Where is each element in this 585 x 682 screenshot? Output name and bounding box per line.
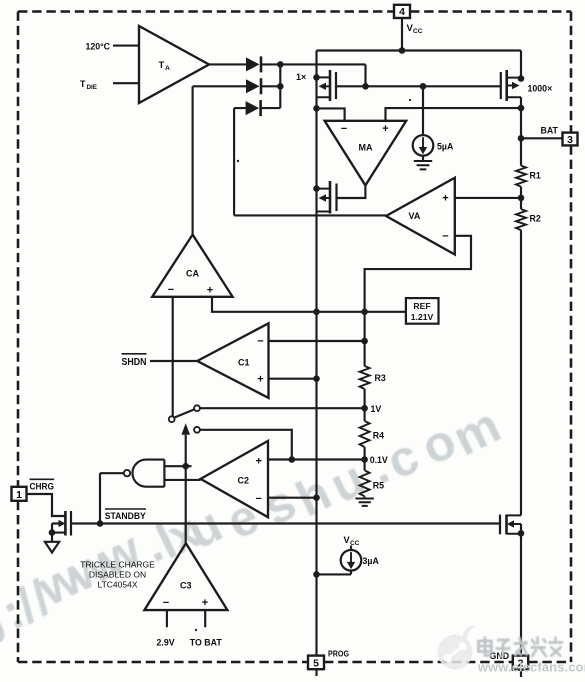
svg-text:2.9V: 2.9V — [157, 637, 175, 647]
svg-text:STANDBY: STANDBY — [105, 511, 146, 521]
svg-text:PROG: PROG — [328, 649, 349, 659]
svg-text:1.21V: 1.21V — [411, 312, 434, 322]
svg-text:−: − — [442, 231, 448, 243]
svg-text:1: 1 — [16, 489, 22, 501]
svg-text:TO BAT: TO BAT — [190, 637, 223, 647]
svg-text:−: − — [257, 336, 263, 348]
svg-text:−: − — [163, 597, 169, 609]
svg-text:R2: R2 — [530, 214, 541, 224]
svg-text:1V: 1V — [371, 404, 382, 414]
svg-text:5µA: 5µA — [437, 142, 454, 152]
svg-text:R5: R5 — [373, 481, 384, 491]
svg-text:+: + — [255, 456, 261, 468]
svg-text:−: − — [168, 284, 174, 296]
svg-text:TRICKLE CHARGE: TRICKLE CHARGE — [80, 560, 155, 570]
svg-text:CC: CC — [413, 28, 423, 35]
svg-text:−: − — [255, 493, 261, 505]
svg-text:www.elecfans.com: www.elecfans.com — [477, 660, 585, 675]
svg-text:CA: CA — [186, 269, 199, 279]
svg-text:+: + — [442, 193, 448, 205]
svg-text:R1: R1 — [530, 171, 541, 181]
svg-text:A: A — [165, 65, 170, 72]
svg-text:120°C: 120°C — [85, 42, 110, 52]
svg-text:CC: CC — [350, 540, 360, 547]
svg-text:DISABLED ON: DISABLED ON — [89, 570, 146, 580]
svg-text:+: + — [257, 374, 263, 386]
svg-text:+: + — [202, 597, 208, 609]
svg-text:1000×: 1000× — [528, 83, 553, 93]
svg-text:R3: R3 — [375, 373, 386, 383]
svg-text:4: 4 — [399, 6, 405, 18]
svg-text:MA: MA — [359, 143, 373, 153]
svg-text:+: + — [207, 285, 213, 297]
svg-text:C3: C3 — [180, 581, 192, 591]
svg-text:REF: REF — [413, 301, 430, 311]
svg-text:C2: C2 — [238, 476, 250, 486]
svg-text:VA: VA — [409, 211, 421, 221]
svg-text:+: + — [382, 123, 388, 135]
svg-text:C1: C1 — [238, 358, 250, 368]
svg-text:3µA: 3µA — [363, 556, 380, 566]
svg-text:BAT: BAT — [541, 126, 559, 136]
svg-text:CHRG: CHRG — [30, 481, 55, 491]
svg-text:5: 5 — [313, 657, 319, 669]
svg-text:0.1V: 0.1V — [370, 455, 388, 465]
svg-text:−: − — [341, 123, 347, 135]
svg-text:SHDN: SHDN — [122, 357, 147, 368]
svg-text:3: 3 — [567, 134, 573, 146]
svg-text:T: T — [80, 79, 86, 89]
svg-text:T: T — [159, 60, 165, 71]
svg-text:R4: R4 — [373, 431, 384, 441]
svg-text:LTC4054X: LTC4054X — [97, 580, 137, 590]
svg-text:1×: 1× — [296, 72, 306, 82]
svg-text:DIE: DIE — [87, 84, 98, 91]
